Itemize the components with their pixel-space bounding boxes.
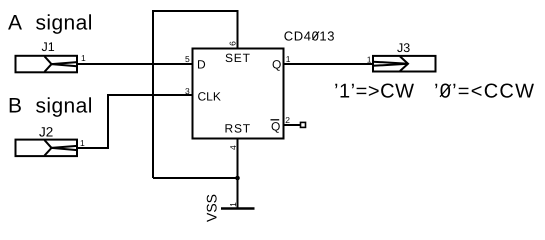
svg-text:2: 2 (285, 115, 290, 125)
wire A: J1 pin 1 to U1 pin 5 (D) (77, 63, 193, 65)
svg-text:CLK: CLK (198, 89, 221, 103)
svg-text:1: 1 (286, 54, 291, 64)
svg-text:VSS: VSS (204, 194, 220, 222)
svg-text:1: 1 (80, 138, 85, 148)
svg-text:5: 5 (185, 54, 190, 64)
svg-text:signal: signal (36, 95, 93, 118)
svg-text:3: 3 (185, 86, 190, 96)
no-connect square on pin 2 (301, 122, 306, 127)
svg-text:RST: RST (225, 121, 251, 135)
wire B: J2 pin 1 to U1 pin 3 (CLK) (77, 95, 193, 148)
svg-text:1: 1 (81, 53, 86, 63)
connector J2 (16, 140, 78, 157)
label A signal (8, 12, 93, 35)
svg-text:1: 1 (367, 54, 372, 64)
svg-text:CD4013: CD4013 (284, 29, 335, 44)
slash of zero in CD4013 (312, 32, 319, 40)
svg-text:SET: SET (225, 51, 251, 65)
svg-text:’1’=>CW: ’1’=>CW (334, 81, 414, 103)
svg-text:Q: Q (271, 120, 280, 134)
slash of zero in '0' (440, 84, 451, 96)
svg-text:Q: Q (272, 57, 281, 71)
ground bar (221, 207, 255, 210)
wire bottom: loop to RST/VSS net (153, 177, 238, 179)
svg-text:A: A (8, 12, 22, 35)
op-amp U1 CD4013 body (193, 49, 284, 139)
svg-text:1: 1 (228, 202, 238, 207)
overline of Qbar (271, 119, 280, 121)
connector J1 (16, 56, 78, 73)
connector J3 (373, 56, 436, 72)
svg-text:6: 6 (227, 41, 237, 46)
svg-text:D: D (197, 57, 206, 71)
wire Qbar stub pin 2 (284, 124, 301, 126)
svg-text:4: 4 (228, 145, 238, 150)
svg-text:signal: signal (36, 12, 93, 35)
wire Q: U1 pin 1 to J3 (284, 63, 374, 65)
svg-text:B: B (8, 95, 22, 118)
svg-text:J1: J1 (42, 40, 55, 54)
svg-text:J2: J2 (39, 124, 53, 139)
wire RST to VSS: U1 pin 4 down to ground (237, 139, 239, 209)
wire SET loop: from bottom net up and over to SET pin 6 (153, 11, 238, 178)
svg-text:J3: J3 (397, 41, 410, 55)
node junction at RST/VSS net (235, 176, 240, 181)
label B signal (8, 95, 93, 118)
svg-text:’0’=<CCW: ’0’=<CCW (434, 81, 534, 103)
